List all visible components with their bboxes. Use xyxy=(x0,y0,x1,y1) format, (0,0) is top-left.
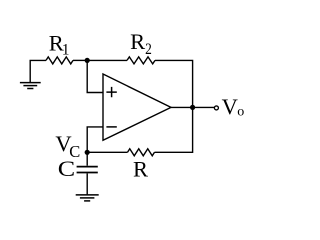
wire: node VC to resistor R xyxy=(87,151,127,153)
ground (top-left) xyxy=(20,83,41,89)
wire: node VC down to capacitor xyxy=(86,152,88,165)
ground (bottom, below C) xyxy=(76,195,99,201)
svg-text:R: R xyxy=(130,29,145,54)
terminal Vo (open circle) xyxy=(214,106,218,110)
svg-text:1: 1 xyxy=(62,42,70,59)
wire: op-amp - input left and down to node VC xyxy=(87,127,103,152)
resistor R1 xyxy=(46,57,73,64)
node VC (junction -input/C/R) xyxy=(85,150,90,155)
op-amp U1 xyxy=(103,74,171,140)
svg-text:o: o xyxy=(237,104,244,119)
svg-text:C: C xyxy=(58,156,75,181)
svg-text:R: R xyxy=(133,157,148,182)
wire: R right and up to output node xyxy=(155,107,193,152)
node B (output junction) xyxy=(190,105,195,110)
wire: left vertical from ground up to top rail corner xyxy=(30,60,46,82)
wire: node A down to op-amp + input xyxy=(87,60,103,92)
wire: capacitor to bottom ground xyxy=(86,173,88,194)
svg-text:2: 2 xyxy=(145,41,152,58)
wire: R1 to node A xyxy=(73,59,87,61)
capacitor C xyxy=(77,167,98,173)
resistor R2 xyxy=(127,57,155,64)
svg-text:V: V xyxy=(222,94,238,119)
node A (junction R1/R2/+input) xyxy=(85,58,90,63)
wire: op-amp output to node B xyxy=(171,106,193,108)
wire: node A to R2 xyxy=(87,59,127,61)
wire: node B to output terminal xyxy=(193,106,215,108)
wire: R2 right over and down to output node xyxy=(155,60,193,107)
resistor R xyxy=(128,149,155,156)
